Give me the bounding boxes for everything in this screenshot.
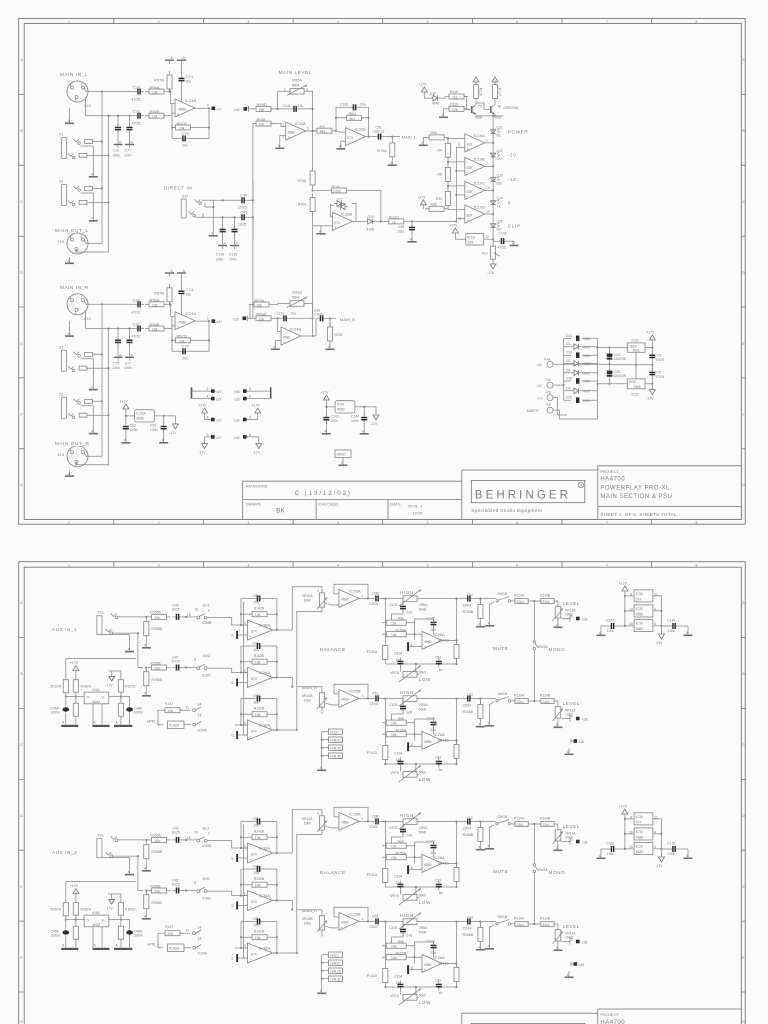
capacitor C143 [323, 414, 329, 424]
sheet1 inner border [24, 24, 741, 520]
svg-text:10:25: 10:25 [413, 511, 424, 516]
svg-text:4580: 4580 [337, 408, 345, 412]
svg-text:-20: -20 [508, 153, 516, 158]
resistor R65 [425, 135, 448, 140]
svg-text:LD3: LD3 [497, 173, 503, 177]
svg-text:2: 2 [158, 20, 160, 24]
divider resistor R12 [446, 188, 451, 210]
capacitor C20 [564, 380, 598, 382]
capacitor C92 [123, 423, 129, 433]
sheet2 title block top lines [462, 1009, 742, 1024]
emitter join wire [476, 103, 503, 128]
svg-text:C76: C76 [113, 149, 119, 153]
svg-text:4580: 4580 [136, 417, 144, 421]
svg-text:4: 4 [337, 521, 339, 525]
capacitor C44 [238, 197, 248, 203]
svg-text:R70A: R70A [298, 203, 307, 207]
svg-text:X3: X3 [59, 180, 63, 184]
svg-text:2: 2 [158, 563, 160, 567]
svg-text:CLIP: CLIP [508, 223, 521, 228]
svg-text:R64: R64 [349, 111, 357, 116]
svg-text:1: 1 [207, 104, 209, 108]
capacitor C141 [290, 106, 300, 112]
svg-text:339: 339 [467, 214, 473, 218]
IC19 power box [466, 234, 484, 246]
resistor R59D [252, 106, 275, 111]
svg-text:x38: x38 [234, 436, 240, 440]
svg-text:DRAWN: DRAWN [246, 502, 261, 507]
resistor R56B [145, 113, 168, 118]
svg-text:C136: C136 [229, 253, 237, 257]
svg-text:5: 5 [249, 387, 251, 391]
ground stub [320, 226, 322, 230]
svg-text:11: 11 [458, 217, 462, 221]
svg-text:R9: R9 [320, 124, 326, 129]
capacitor C144 [361, 414, 367, 424]
svg-text:C70: C70 [182, 131, 190, 136]
comparator IC19B [465, 157, 485, 175]
svg-text:3: 3 [207, 387, 209, 391]
svg-text:X13: X13 [84, 103, 92, 108]
svg-text:100n: 100n [330, 419, 338, 423]
svg-text:4148: 4148 [367, 227, 375, 231]
diode D1 [564, 346, 598, 348]
svg-text:x36: x36 [234, 108, 240, 112]
svg-text:R63B: R63B [257, 312, 267, 317]
svg-text:7915: 7915 [633, 385, 641, 389]
svg-text:R: R [579, 484, 582, 488]
svg-text:BK: BK [276, 509, 285, 515]
svg-text:R66: R66 [431, 202, 437, 206]
svg-text:13: 13 [486, 210, 490, 214]
svg-text:4148: 4148 [432, 102, 440, 106]
svg-text:IC19D: IC19D [474, 204, 485, 209]
svg-text:C22: C22 [566, 396, 572, 400]
comparator IC19C [465, 181, 485, 199]
svg-text:BEHRINGER: BEHRINGER [475, 489, 571, 501]
capacitor C61 [375, 134, 385, 140]
sheet1 outer border [19, 19, 746, 525]
svg-text:20u: 20u [291, 312, 297, 316]
capacitor C11 [564, 337, 598, 339]
svg-text:20.01. 3: 20.01. 3 [408, 504, 423, 509]
resistor R57B [167, 71, 172, 93]
capacitor C9 [649, 351, 655, 361]
svg-text:RD2: RD2 [629, 380, 636, 384]
svg-text:G: G [20, 483, 23, 487]
svg-text:GN: GN [497, 157, 503, 161]
svg-text:X15: X15 [57, 239, 65, 244]
svg-text:-12: -12 [508, 177, 516, 182]
capacitor C5 [649, 368, 655, 378]
svg-text:G: G [742, 483, 745, 487]
bus wire from direct in [252, 124, 254, 319]
LED LD5 CLIP [491, 223, 500, 228]
potentiometer VR6B [287, 297, 307, 308]
svg-text:100n: 100n [351, 419, 359, 423]
feedback resistor R64 [343, 115, 366, 120]
resistor R75a [391, 137, 393, 139]
resistor R116 [474, 81, 479, 103]
transistor T5 [468, 103, 477, 116]
svg-text:T5: T5 [478, 104, 482, 108]
svg-text:3: 3 [282, 136, 284, 140]
capacitor C22 [564, 399, 598, 401]
LED column wire [492, 128, 494, 262]
divider resistor R4 [446, 139, 451, 161]
comparator IC19D [465, 205, 485, 223]
svg-text:R117: R117 [498, 88, 502, 96]
svg-text:IC19B: IC19B [474, 157, 485, 162]
svg-text:POWERPLAY PRO-XL: POWERPLAY PRO-XL [600, 485, 670, 491]
svg-text:D19: D19 [368, 215, 374, 219]
svg-text:HPDC: HPDC [337, 452, 347, 456]
svg-text:220/16: 220/16 [374, 130, 384, 134]
ground under XLR [65, 119, 74, 124]
svg-text:AC: AC [538, 384, 543, 388]
svg-text:6: 6 [516, 20, 518, 24]
resistor R119 [445, 106, 468, 111]
svg-text:CH: CH [538, 396, 543, 400]
svg-text:6: 6 [516, 563, 518, 567]
svg-text:LD4: LD4 [497, 197, 503, 201]
diode D2 [564, 363, 598, 365]
capacitor C151 [280, 315, 290, 321]
svg-text:IC34: IC34 [337, 403, 344, 407]
svg-text:IC34B: IC34B [290, 327, 301, 332]
svg-text:10k: 10k [152, 115, 158, 119]
svg-text:C37: C37 [133, 109, 141, 114]
wire top row [84, 88, 134, 92]
svg-text:C151: C151 [277, 312, 285, 316]
svg-text:6: 6 [516, 521, 518, 525]
svg-text:100n: 100n [124, 153, 132, 157]
resistor R9 [313, 128, 336, 133]
svg-text:15k: 15k [259, 123, 265, 127]
svg-text:1: 1 [68, 563, 70, 567]
svg-text:2: 2 [158, 521, 160, 525]
channel R label overrides [54, 284, 101, 447]
svg-text:C144: C144 [351, 415, 359, 419]
svg-text:10: 10 [486, 235, 490, 239]
svg-text:C77: C77 [125, 149, 131, 153]
svg-text:x36: x36 [234, 398, 240, 402]
svg-text:C49: C49 [398, 225, 404, 229]
svg-text:R56A: R56A [150, 85, 160, 90]
svg-text:RL: RL [497, 134, 501, 138]
svg-text:T6: T6 [497, 104, 501, 108]
svg-text:15k: 15k [257, 304, 263, 308]
capacitor C45 [238, 214, 248, 220]
svg-text:LD5: LD5 [497, 220, 503, 224]
capacitor C13 [607, 354, 613, 357]
svg-text:6: 6 [249, 395, 251, 399]
svg-text:EARTH: EARTH [527, 409, 539, 413]
svg-text:5: 5 [427, 20, 429, 24]
regulator output wires [610, 344, 653, 390]
svg-text:Specialized Studio Equipment: Specialized Studio Equipment [471, 508, 542, 513]
ground jack X1 [81, 146, 94, 173]
svg-text:C143: C143 [330, 415, 338, 419]
svg-text:+20: +20 [545, 378, 551, 382]
svg-text:4007: 4007 [583, 362, 591, 366]
-17V arrow [487, 260, 496, 275]
svg-text:220/16: 220/16 [313, 313, 323, 317]
svg-text:3: 3 [207, 433, 209, 437]
diode D5 [564, 390, 598, 392]
op-amp IC34B [281, 327, 301, 345]
svg-text:R59D: R59D [257, 102, 267, 107]
svg-text:R65: R65 [431, 131, 437, 135]
divider resistor R70B [312, 109, 314, 167]
svg-text:D1: D1 [566, 342, 570, 346]
svg-text:8: 8 [696, 563, 698, 567]
svg-text:7: 7 [606, 521, 608, 525]
svg-text:C45: C45 [240, 210, 248, 215]
capacitor C138 [222, 216, 224, 218]
svg-text:IC34A: IC34A [295, 121, 306, 126]
svg-text:2200/35: 2200/35 [614, 374, 626, 378]
ring wire row [196, 216, 239, 218]
svg-text:VR6A: VR6A [292, 78, 303, 83]
MAIN LEVEL R row [233, 290, 355, 351]
svg-text:x27: x27 [217, 107, 223, 111]
svg-text:C44: C44 [240, 192, 248, 197]
svg-text:100n: 100n [112, 153, 120, 157]
svg-text:R70C: R70C [332, 185, 341, 189]
+17V rails for T5 T6 [473, 77, 479, 82]
tip wire row [202, 199, 239, 201]
svg-text:C92: C92 [130, 424, 136, 428]
svg-text:CHECKED: CHECKED [319, 502, 339, 507]
ground jack X3 [81, 193, 94, 217]
svg-text:100n: 100n [150, 428, 158, 432]
svg-text:8: 8 [249, 433, 251, 437]
svg-text:100n: 100n [130, 428, 138, 432]
svg-text:F: F [20, 956, 22, 960]
capacitor C12 [564, 354, 598, 356]
sheet1 grid numbers [20, 20, 745, 525]
svg-text:4580: 4580 [179, 108, 187, 112]
HPDC box [335, 450, 351, 466]
svg-text:8: 8 [696, 20, 698, 24]
channel 2 instance [51, 805, 693, 1006]
svg-text:PROJECT: PROJECT [600, 469, 619, 474]
feedback wires [172, 104, 210, 139]
MAIN LEVEL block [234, 70, 456, 318]
wires into op-amp [168, 84, 182, 103]
input wires [553, 338, 610, 419]
svg-text:3: 3 [247, 563, 249, 567]
svg-text:R116: R116 [479, 88, 483, 96]
svg-text:R12: R12 [436, 197, 442, 201]
PSU block [527, 331, 664, 420]
svg-text:MAIN IN_L: MAIN IN_L [60, 72, 88, 77]
svg-text:x27: x27 [216, 436, 222, 440]
capacitor C76 [117, 115, 119, 117]
channel 2 label override AUX IN_2 [51, 849, 91, 856]
svg-text:100n: 100n [583, 380, 591, 384]
capacitor C37 [134, 113, 144, 119]
capacitor C45b 220/16 [317, 315, 327, 321]
svg-text:8: 8 [696, 521, 698, 525]
capacitor C26 [607, 371, 613, 374]
svg-text:47/25: 47/25 [498, 246, 507, 250]
svg-text:100n: 100n [583, 337, 591, 341]
svg-text:IC24A: IC24A [185, 98, 196, 103]
svg-text:F: F [20, 413, 22, 417]
svg-text:1: 1 [284, 88, 286, 92]
svg-text:100n: 100n [216, 258, 224, 262]
resistor R120 [385, 219, 408, 224]
svg-text:14: 14 [486, 186, 490, 190]
svg-text:D5: D5 [566, 386, 570, 390]
svg-text:1k1: 1k1 [452, 96, 458, 100]
svg-text:x35: x35 [234, 390, 240, 394]
svg-text:339: 339 [467, 166, 473, 170]
comparator IC19A [465, 134, 485, 152]
wire bottom row [86, 98, 135, 116]
resistor R117 [493, 81, 498, 103]
svg-text:4: 4 [337, 563, 339, 567]
LED LD1 POWER [491, 129, 500, 134]
svg-text:7: 7 [367, 132, 369, 136]
svg-text:20u: 20u [182, 144, 188, 148]
svg-text:R56B: R56B [150, 109, 160, 114]
svg-text:339: 339 [467, 190, 473, 194]
svg-text:5: 5 [427, 521, 429, 525]
op-amp IC31B [346, 128, 366, 146]
op-amp IC30B [333, 212, 353, 230]
feedback capacitor C70 [179, 136, 189, 142]
svg-text:100n: 100n [583, 354, 591, 358]
svg-text:MAIN OUT_L: MAIN OUT_L [55, 228, 89, 233]
-17V [169, 420, 178, 435]
svg-text:3: 3 [306, 88, 308, 92]
svg-text:R4: R4 [438, 149, 442, 153]
svg-text:x27: x27 [216, 390, 222, 394]
svg-text:R75a: R75a [377, 148, 387, 153]
svg-text:6k1: 6k1 [350, 117, 356, 121]
svg-text:10/25: 10/25 [238, 223, 247, 227]
sheet1 border column ticks top/bottom [19, 19, 746, 525]
svg-text:C12: C12 [566, 351, 572, 355]
svg-text:4007: 4007 [583, 390, 591, 394]
divider resistor R6 [446, 163, 451, 185]
svg-text:+26: +26 [545, 391, 551, 395]
svg-text:G: G [20, 1020, 23, 1024]
rail stub bars [165, 56, 174, 64]
svg-text:MAIN_L: MAIN_L [402, 135, 417, 140]
svg-text:LEDCOM: LEDCOM [504, 106, 519, 110]
svg-text:+1P: +1P [545, 403, 552, 407]
svg-text:6k1: 6k1 [320, 130, 326, 134]
svg-text:2: 2 [486, 162, 488, 166]
svg-text:2200/35: 2200/35 [614, 357, 626, 361]
op-amp supply block IC20A [120, 400, 178, 444]
normalling contacts [203, 203, 213, 217]
resistor R139 [329, 318, 331, 327]
feedback resistor R57G [172, 125, 195, 130]
connector +20 / AC [547, 382, 553, 388]
resistor R56A [145, 89, 168, 94]
svg-text:C11: C11 [566, 334, 572, 338]
svg-text:IC20A: IC20A [136, 412, 146, 416]
svg-text:LD2: LD2 [497, 149, 503, 153]
svg-text:5: 5 [427, 563, 429, 567]
svg-text:MAIN IN_R: MAIN IN_R [60, 285, 89, 290]
svg-text:1: 1 [68, 521, 70, 525]
svg-text:4: 4 [249, 415, 251, 419]
svg-text:C24: C24 [133, 85, 141, 90]
LED meter block [417, 77, 528, 275]
svg-text:R6: R6 [438, 173, 442, 177]
svg-text:47/25: 47/25 [132, 98, 141, 102]
svg-text:C141: C141 [283, 104, 291, 108]
capacitor C74 [179, 75, 185, 85]
svg-text:7: 7 [606, 563, 608, 567]
svg-text:4: 4 [207, 395, 209, 399]
svg-text:5: 5 [458, 143, 460, 147]
connector V+A / AC [547, 361, 553, 367]
-17V rail [646, 386, 655, 401]
svg-text:YE: YE [497, 205, 502, 209]
LED LD4 [491, 200, 500, 205]
svg-text:3: 3 [247, 20, 249, 24]
capacitor C142 [493, 240, 498, 242]
svg-text:V+A: V+A [544, 357, 551, 361]
svg-text:IC30B: IC30B [341, 211, 352, 216]
svg-text:R70B: R70B [297, 179, 306, 183]
svg-text:4580: 4580 [283, 336, 291, 340]
svg-text:4: 4 [337, 20, 339, 24]
svg-text:x36: x36 [234, 419, 240, 423]
svg-text:072: 072 [334, 221, 340, 225]
svg-text:47/25: 47/25 [655, 375, 664, 379]
svg-text:20u: 20u [360, 103, 366, 107]
capacitor C24 [134, 89, 144, 95]
svg-text:R118: R118 [450, 90, 458, 94]
diode D4 [564, 372, 598, 374]
svg-text:1: 1 [307, 127, 309, 131]
svg-text:D2: D2 [566, 359, 570, 363]
svg-text:C93: C93 [150, 424, 156, 428]
LED LD2 [491, 152, 500, 157]
svg-text:F: F [742, 413, 744, 417]
svg-text:DIRECT IN: DIRECT IN [164, 186, 192, 191]
resistor R66 [425, 206, 448, 211]
svg-text:C74: C74 [186, 74, 194, 79]
svg-text:C20: C20 [566, 377, 572, 381]
svg-text:VR6B: VR6B [292, 290, 303, 295]
svg-text:10k: 10k [152, 91, 158, 95]
resistor R63a [250, 302, 273, 307]
svg-text:DATE: DATE [390, 502, 401, 507]
svg-text:D4: D4 [566, 368, 570, 372]
svg-text:1.00k: 1.00k [332, 190, 341, 194]
svg-text:C142: C142 [499, 232, 507, 236]
svg-text:1: 1 [68, 20, 70, 24]
svg-text:C100: C100 [340, 103, 348, 107]
rectifier rails [598, 338, 628, 400]
svg-text:339: 339 [467, 143, 473, 147]
svg-text:REVISIONS: REVISIONS [246, 484, 268, 489]
svg-text:47/25: 47/25 [655, 358, 664, 362]
resistor R70A [310, 194, 315, 216]
svg-text:339: 339 [467, 241, 473, 245]
resistor R63B [252, 316, 275, 321]
behringer cell [462, 470, 598, 520]
